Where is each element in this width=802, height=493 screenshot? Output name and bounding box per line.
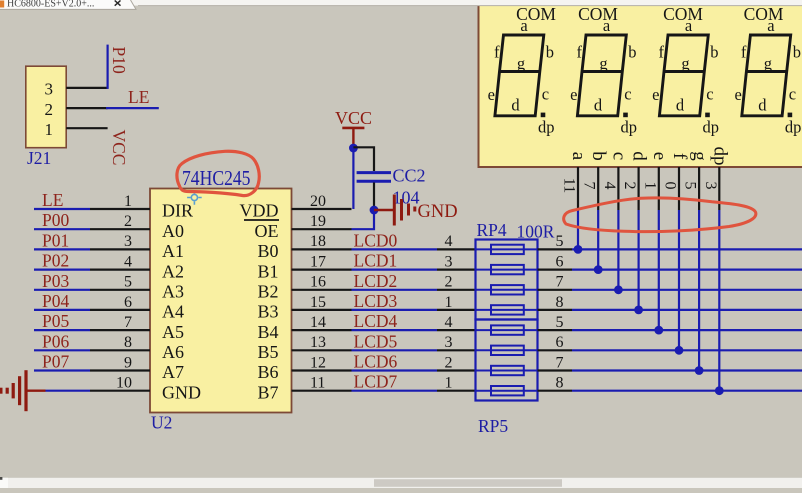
svg-text:B5: B5 [257,342,278,362]
svg-text:7: 7 [124,314,132,331]
svg-text:B4: B4 [257,322,278,342]
resistor RP5 element 1 [476,325,538,334]
7-seg digit 3 outline [659,35,708,116]
svg-text:GND: GND [418,202,458,222]
power symbol VCC [335,108,372,148]
wire RP5 output row 8 [572,390,802,392]
U2 pin 14 [292,329,352,331]
svg-text:GND: GND [162,382,201,402]
svg-text:dp: dp [703,118,720,137]
svg-text:8: 8 [124,334,132,351]
svg-text:b: b [628,43,636,62]
svg-text:2: 2 [124,213,132,230]
junction dp [715,386,724,395]
junction d [634,306,643,315]
svg-text:COM: COM [744,4,784,24]
svg-text:P01: P01 [42,230,69,250]
svg-text:A4: A4 [162,302,184,322]
wire segment d vertical [637,210,639,310]
display pin 2 (segment d) [621,151,650,210]
wire net LCD5 [352,349,438,351]
svg-text:d: d [676,96,685,115]
svg-text:a: a [767,16,775,35]
svg-text:LE: LE [128,87,149,107]
svg-text:g: g [689,151,710,161]
svg-text:f: f [494,43,500,62]
svg-text:18: 18 [310,233,326,250]
wire VCC to U2 pin 20 [352,148,354,209]
svg-text:3: 3 [45,80,54,99]
RP4 pin 6 (right) [538,269,573,271]
display pin 0 (segment f) [662,153,691,210]
svg-text:DIR: DIR [162,201,193,221]
wire segment c vertical [617,210,619,290]
svg-text:b: b [793,43,801,62]
svg-text:74HC245: 74HC245 [182,166,251,190]
svg-text:4: 4 [124,253,132,270]
wire net LCD0 [352,248,438,250]
svg-text:9: 9 [124,354,132,371]
svg-text:1: 1 [445,294,453,311]
svg-text:U2: U2 [151,413,172,433]
svg-text:d: d [629,151,650,161]
svg-text:16: 16 [310,274,326,291]
svg-text:COM: COM [663,4,703,24]
U2 pin 12 [292,369,352,371]
U2 pin 10 [90,390,150,392]
svg-text:6: 6 [556,334,564,351]
U2 pin 4 [90,269,150,271]
svg-text:c: c [608,152,629,160]
RP5 pin 5 (right) [538,329,573,331]
wire junction to U2 pin 19 [352,210,375,229]
wire net P06 [34,349,90,351]
svg-text:5: 5 [556,314,564,331]
svg-text:g: g [681,54,689,73]
resistor RP4 element 1 [476,245,538,254]
svg-text:104: 104 [393,188,420,208]
wire net LCD2 [352,289,438,291]
wire segment g vertical [698,210,700,371]
U2 pin 1 [90,208,150,210]
7-seg digit 4 segment labels [734,16,801,137]
RP4 pin 7 (right) [538,289,573,291]
svg-text:19: 19 [310,213,326,230]
svg-text:17: 17 [310,253,326,270]
svg-text:d: d [511,96,520,115]
J21 pin 1 [66,127,107,129]
svg-text:3: 3 [445,253,453,270]
svg-text:B3: B3 [257,302,278,322]
U2 pin 20 [292,208,352,210]
svg-text:A0: A0 [162,221,184,241]
wire segment dp vertical [718,210,720,391]
svg-text:4: 4 [445,314,453,331]
resistor RP4 element 4 [476,305,538,314]
svg-text:2: 2 [45,100,54,119]
svg-text:g: g [764,54,772,73]
RP5 pin 8 (right) [538,390,573,392]
junction CC2/GND node [370,206,379,215]
svg-text:1: 1 [641,182,658,190]
U2 pin 3 [90,248,150,250]
svg-text:a: a [603,16,611,35]
7-seg digit 1 segment labels [488,16,555,137]
svg-text:g: g [599,54,607,73]
svg-text:LCD0: LCD0 [354,230,398,250]
U2 pin 8 [90,349,150,351]
ground symbol (right, at CC2) [374,195,416,226]
svg-text:e: e [652,85,659,104]
wire segment a vertical [577,210,579,249]
7-seg digit 2 outline [577,35,626,116]
scrollbar corner [0,478,8,488]
svg-text:b: b [588,151,609,161]
svg-text:11: 11 [310,375,325,392]
svg-text:b: b [710,43,718,62]
svg-text:LCD2: LCD2 [354,271,398,291]
U2 pin 18 [292,248,352,250]
7-seg digit 2 segment labels [570,16,637,137]
svg-text:VCC: VCC [335,108,372,128]
resistor pack RP4 body [476,240,538,320]
svg-text:7: 7 [556,354,564,371]
svg-text:LCD1: LCD1 [354,251,398,271]
U2 selection crosshair marker [187,190,202,205]
RP5 pin 7 (right) [538,369,573,371]
svg-text:12: 12 [310,354,326,371]
svg-text:c: c [789,85,796,104]
svg-text:B7: B7 [257,382,278,402]
connector J21 body [26,66,66,148]
junction g [695,366,704,375]
svg-text:B6: B6 [257,362,278,382]
wire net LCD4 [352,329,438,331]
svg-text:3: 3 [702,182,719,190]
wire net P00 [34,228,90,230]
wire RP5 output row 5 [572,329,802,331]
resistor RP4 element 3 [476,285,538,294]
svg-text:P04: P04 [42,291,69,311]
annotation loop around display pin numbers [564,198,756,232]
svg-text:VDD: VDD [240,201,279,221]
wire RP4 output row 3 [572,289,802,291]
RP4 pin 8 (right) [538,309,573,311]
wire net P04 [34,309,90,311]
display pin 3 (segment dp) [702,147,731,211]
U2 pin 11 [292,390,352,392]
svg-text:f: f [741,43,747,62]
svg-text:20: 20 [310,193,326,210]
svg-text:dp: dp [709,147,730,166]
resistor RP4 element 2 [476,265,538,274]
svg-text:HC6800-ES+V2.0+...: HC6800-ES+V2.0+... [7,0,94,9]
junction c [614,285,623,294]
svg-text:LCD7: LCD7 [354,372,398,392]
display module DS body [479,0,802,167]
svg-text:5: 5 [556,233,564,250]
svg-text:LCD3: LCD3 [354,291,398,311]
svg-text:B1: B1 [257,261,278,281]
7-seg digit 3 segment labels [652,16,719,137]
svg-text:4: 4 [601,182,618,190]
svg-text:B2: B2 [257,282,278,302]
J21 pin 3 [66,87,107,89]
wire net LCD6 [352,369,438,371]
7-seg digit 1 outline [495,35,544,116]
svg-text:a: a [568,152,589,161]
7-seg digit 4 dp dot [788,113,793,118]
U2 pin 19 [292,228,352,230]
svg-text:RP4: RP4 [477,220,507,240]
7-seg digit 1 dp dot [541,113,546,118]
resistor RP5 element 4 [476,386,538,395]
svg-text:c: c [706,85,713,104]
U2 pin 13 [292,349,352,351]
svg-text:J21: J21 [27,148,51,168]
wire RP4 output row 4 [572,309,802,311]
display pin 1 (segment e) [641,152,670,210]
svg-text:A5: A5 [162,322,184,342]
svg-text:dp: dp [538,118,555,137]
capacitor CC2 [357,173,391,182]
junction VCC node [349,144,358,153]
wire CC2 to GND junction [373,183,375,211]
U2 pin 7 [90,329,150,331]
wire net P02 [34,269,90,271]
svg-text:e: e [488,85,495,104]
svg-text:LCD6: LCD6 [354,352,398,372]
svg-text:LCD4: LCD4 [354,311,398,331]
IC U2 74HC245 body [150,189,292,413]
svg-text:5: 5 [682,182,699,190]
U2 pin names [162,201,279,403]
svg-text:13: 13 [310,334,326,351]
svg-text:2: 2 [445,354,453,371]
svg-text:3: 3 [124,233,132,250]
wire RP4 output row 1 [572,248,802,250]
display pin 11 (segment a) [561,152,590,210]
svg-text:c: c [542,85,549,104]
svg-text:11: 11 [561,178,578,193]
RP5 pin 6 (right) [538,349,573,351]
svg-text:e: e [734,85,741,104]
wire net P03 [34,289,90,291]
tab document icon [0,1,4,8]
svg-text:e: e [570,85,577,104]
7-seg digit 4 outline [742,35,791,116]
svg-text:2: 2 [445,274,453,291]
svg-text:10: 10 [116,375,132,392]
svg-text:P05: P05 [42,311,69,331]
U2 pin 17 [292,269,352,271]
wire net P01 [34,248,90,250]
junction a [574,245,583,254]
wire net LCD3 [352,309,438,311]
svg-text:COM: COM [578,4,618,24]
svg-text:c: c [624,85,631,104]
svg-text:100R: 100R [517,222,555,242]
svg-text:1: 1 [124,193,132,210]
U2 pin 16 [292,289,352,291]
svg-text:A7: A7 [162,362,184,382]
svg-text:e: e [649,152,670,160]
svg-text:2: 2 [621,182,638,190]
svg-text:A6: A6 [162,342,184,362]
svg-text:A1: A1 [162,241,184,261]
svg-text:f: f [659,43,665,62]
wire VCC branch to CC2 [353,147,374,171]
svg-text:dp: dp [621,118,638,137]
svg-text:P00: P00 [42,210,69,230]
svg-text:15: 15 [310,294,326,311]
svg-text:6: 6 [556,253,564,270]
svg-text:g: g [517,54,525,73]
svg-text:7: 7 [556,274,564,291]
wire net LE [34,208,90,210]
resistor pack RP5 body [476,320,538,401]
U2 pin 9 [90,369,150,371]
wire net LCD7 [352,390,438,392]
svg-text:8: 8 [556,375,564,392]
svg-text:VCC: VCC [109,130,129,166]
wire GND to U2 pin 10 [46,390,91,392]
svg-text:LCD5: LCD5 [354,331,398,351]
window tab bar [0,0,802,9]
svg-text:B0: B0 [257,241,278,261]
7-seg digit 3 dp dot [705,113,710,118]
svg-text:1: 1 [45,120,54,139]
svg-text:A3: A3 [162,282,184,302]
svg-text:dp: dp [785,118,802,137]
svg-text:b: b [546,43,554,62]
svg-text:f: f [669,153,690,160]
U2 pin 6 [90,309,150,311]
wire RP4 output row 2 [572,269,802,271]
svg-text:8: 8 [556,294,564,311]
svg-text:7: 7 [581,182,598,190]
7-seg digit 2 dp dot [623,113,628,118]
svg-text:d: d [594,96,603,115]
scrollbar thumb [374,479,562,487]
U2 pin 5 [90,289,150,291]
wire RP5 output row 7 [572,369,802,371]
svg-text:5: 5 [124,274,132,291]
svg-text:3: 3 [445,334,453,351]
svg-text:P03: P03 [42,271,69,291]
U2 OE overline [244,219,279,221]
horizontal scrollbar track [0,478,802,488]
junction b [594,265,603,274]
svg-text:4: 4 [445,233,453,250]
wire net LE (J21) [106,107,159,109]
display pin 5 (segment g) [682,151,711,210]
svg-text:OE: OE [255,221,279,241]
RP4 pin 5 (right) [538,248,573,250]
wire net P05 [34,329,90,331]
svg-text:P10: P10 [109,47,129,74]
svg-text:a: a [685,16,693,35]
svg-text:A2: A2 [162,261,184,281]
tab close button [115,1,121,6]
svg-text:CC2: CC2 [393,166,426,186]
ground symbol (left, at U2 pin 10) [0,370,46,411]
svg-text:1: 1 [445,375,453,392]
svg-text:RP5: RP5 [478,416,508,436]
svg-text:f: f [577,43,583,62]
svg-text:P06: P06 [42,331,69,351]
J21 pin 2 [66,107,107,109]
wire net LCD1 [352,269,438,271]
resistor RP5 element 3 [476,366,538,375]
wire net P07 [34,369,90,371]
wire segment f vertical [678,210,680,350]
junction f [675,346,684,355]
U2 pin 2 [90,228,150,230]
svg-text:P02: P02 [42,251,69,271]
svg-text:14: 14 [310,314,326,331]
svg-text:0: 0 [662,182,679,190]
annotation loop around 74HC245 [177,151,259,195]
svg-text:P07: P07 [42,352,69,372]
wire RP5 output row 6 [572,349,802,351]
wire segment b vertical [597,210,599,270]
U2 pin 15 [292,309,352,311]
display pin 4 (segment c) [601,152,630,210]
svg-text:a: a [520,16,528,35]
svg-text:d: d [758,96,767,115]
resistor RP5 element 2 [476,346,538,355]
wire segment e vertical [658,210,660,330]
display pin 7 (segment b) [581,151,610,210]
svg-text:6: 6 [124,294,132,311]
svg-text:LE: LE [42,190,63,210]
wire net P10 vertical [106,45,108,89]
junction e [654,326,663,335]
